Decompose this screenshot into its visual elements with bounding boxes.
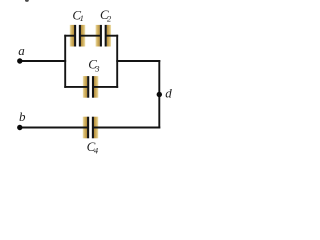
capacitor C3: [83, 76, 99, 98]
wire box left vertical: [64, 35, 66, 88]
label C1: [72, 7, 83, 23]
wire box right vertical: [116, 35, 118, 88]
svg-text:b: b: [19, 109, 26, 124]
node a: [17, 58, 22, 63]
capacitor C1: [70, 25, 86, 47]
label C3: [88, 56, 99, 73]
node d: [157, 92, 162, 97]
wire C3 branch left: [64, 86, 88, 88]
wire b to C4: [20, 127, 88, 129]
label C4: [87, 139, 99, 156]
capacitor C2: [96, 25, 112, 47]
svg-text:d: d: [165, 86, 172, 101]
svg-text:a: a: [18, 43, 25, 58]
wire top branch middle: [80, 35, 101, 37]
svg-text:4: 4: [94, 146, 99, 156]
wire top branch left: [64, 35, 75, 37]
wire d vertical: [158, 60, 160, 128]
label C2: [100, 7, 112, 23]
wire box to d corner: [116, 60, 160, 62]
capacitor C4: [83, 117, 99, 139]
wire C4 to d corner: [93, 127, 161, 129]
svg-text:1: 1: [80, 13, 84, 23]
node b: [17, 125, 22, 130]
wire top branch right: [105, 35, 118, 37]
stray mark top edge: [25, 0, 29, 2]
wire C3 branch right: [93, 86, 119, 88]
wire a to box: [20, 60, 66, 62]
svg-text:3: 3: [94, 63, 99, 73]
